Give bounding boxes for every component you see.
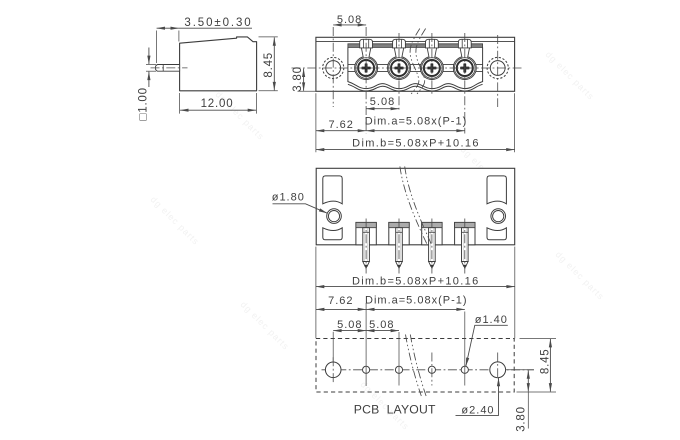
side view body [180, 37, 257, 91]
screw unit 3 tab [426, 39, 439, 48]
screw 3 cross recess [427, 63, 436, 72]
pin 2 tab [389, 222, 409, 244]
PCB pin hole 4 ø1.40 [461, 366, 468, 373]
dim line 8.45 pcb [549, 339, 551, 392]
screw 1 head [356, 58, 377, 79]
middle view outline [316, 168, 515, 245]
pin 3 tip [429, 262, 436, 267]
front view flange outline [316, 37, 515, 91]
right lower slot (middle view) [487, 228, 506, 240]
dim line 5.08 pcb left [333, 330, 366, 332]
dim 8.45 extension lines (side) [259, 36, 278, 38]
pin 2 shaft [396, 228, 403, 262]
svg-text:7.62: 7.62 [328, 295, 353, 307]
PCB pin hole 1 ø1.40 [363, 366, 370, 373]
svg-text:5.08: 5.08 [370, 96, 395, 108]
pin 4 crimp line [462, 231, 469, 233]
svg-text:5.08: 5.08 [369, 319, 394, 331]
left screw hole ø1.80 (middle view) [327, 209, 342, 224]
screw unit 1 neck [361, 48, 370, 58]
vertical centerlines front [332, 27, 334, 107]
PCB hole right ø2.40 [490, 362, 506, 378]
dim line 5.08 pcb right [366, 330, 399, 332]
pin 4 centerline [464, 219, 466, 274]
PCB horizontal centerline [322, 369, 535, 371]
pin 3 crimp line [429, 231, 436, 233]
dim line 12.00 [180, 109, 256, 111]
break line PCB 1 [406, 335, 422, 397]
screw 4 cross recess [460, 63, 469, 72]
PCB vertical centerlines [365, 303, 367, 386]
front housing top band [348, 44, 483, 48]
svg-text:3.80: 3.80 [516, 406, 528, 432]
pin 1 shaft [363, 228, 370, 262]
svg-text:Dim.a=5.08x(P-1): Dim.a=5.08x(P-1) [365, 115, 468, 127]
dim line 3.50±0.30 [157, 27, 179, 29]
svg-text:□1.00: □1.00 [138, 87, 150, 120]
svg-text:3.80: 3.80 [292, 66, 304, 92]
screw unit 3 neck [427, 48, 436, 58]
PCB pin hole 2 ø1.40 [395, 366, 402, 373]
break line front 2 [416, 29, 426, 96]
svg-text:ø1.80: ø1.80 [272, 192, 305, 204]
right upper slot (middle view) [487, 176, 506, 204]
screw unit 2 neck [394, 48, 403, 58]
svg-text:8.45: 8.45 [263, 52, 275, 78]
dim 3.50±0.30 extension lines [156, 31, 158, 64]
dim □1.00 arrows [148, 48, 150, 65]
screw unit 1 tab [360, 39, 373, 48]
side view pin centerline [151, 67, 188, 69]
PCB hole left ø2.40 [325, 362, 341, 378]
screw 4 head [455, 58, 476, 79]
break line front 1 [410, 29, 420, 96]
mounting hole right (front) [487, 57, 508, 78]
dim line 8.45 side [273, 37, 275, 90]
break line middle 1 [400, 166, 427, 244]
side view pin [156, 65, 180, 72]
screw 1 cross recess [362, 63, 371, 72]
PCB hole left vertical centerline [332, 357, 334, 382]
dim line Dim.a pcb [366, 308, 465, 310]
dim line Dim.a front [366, 130, 465, 132]
svg-text:Dim.b=5.08xP+10.16: Dim.b=5.08xP+10.16 [352, 137, 480, 149]
dim line 7.62 pcb [316, 308, 366, 310]
svg-text:PCB LAYOUT: PCB LAYOUT [354, 402, 436, 416]
pin 3 shaft [429, 228, 436, 262]
PCB layout dashed outline [316, 339, 514, 393]
pin 1 centerline [365, 219, 367, 274]
right screw hole ø1.80 (middle view) [491, 209, 506, 224]
svg-text:ø1.40: ø1.40 [475, 314, 508, 326]
svg-text:ø2.40: ø2.40 [461, 404, 494, 416]
pin 1 tab [356, 222, 376, 244]
pin hidden edge tick [162, 65, 164, 71]
dim line 3.80 front [303, 69, 305, 91]
break line middle 2 [405, 166, 432, 244]
dim 12.00 extension lines [179, 93, 181, 114]
break line PCB 2 [410, 335, 426, 397]
PCB 8.45 extensions [520, 338, 557, 340]
front wire-clamp bars [348, 63, 483, 65]
svg-text:3.50±0.30: 3.50±0.30 [184, 17, 252, 29]
front housing wavy bottom lines [348, 82, 483, 89]
dim 3.80 (front) extensions [298, 90, 317, 92]
svg-text:5.08: 5.08 [337, 319, 362, 331]
front Dim.b extension lines [315, 93, 317, 152]
svg-text:Dim.b=5.08xP+10.16: Dim.b=5.08xP+10.16 [352, 275, 480, 287]
screw unit 4 boss [453, 57, 476, 80]
pin 2 crimp line [396, 231, 403, 233]
pin 1 crimp line [363, 231, 370, 233]
dim □1.00 extension lines [146, 64, 156, 66]
dim line Dim.b middle [316, 286, 515, 288]
svg-text:5.08: 5.08 [337, 14, 362, 26]
screw unit 1 boss [355, 57, 378, 80]
pin 4 tip [462, 262, 469, 267]
svg-text:Dim.a=5.08x(P-1): Dim.a=5.08x(P-1) [365, 295, 468, 307]
dim line 5.08 top [333, 24, 366, 26]
pin 4 tab [455, 222, 475, 244]
front housing left edge [347, 47, 349, 82]
leader ø1.40 [466, 325, 508, 366]
3.80 dim tail [527, 392, 529, 429]
svg-text:7.62: 7.62 [328, 119, 353, 131]
pin 1 tip [363, 262, 370, 267]
mounting hole left (front) [323, 57, 344, 78]
screw 2 cross recess [394, 63, 403, 72]
front housing right edge [482, 47, 484, 82]
front flange edge line [316, 40, 515, 42]
pin 4 shaft [462, 228, 469, 262]
front horizontal centerline [292, 67, 522, 69]
pin 2 tip [396, 262, 403, 267]
screw unit 3 boss [420, 57, 443, 80]
screw unit 2 boss [388, 57, 411, 80]
faint watermark [149, 49, 607, 432]
PCB 5.08 left extension [332, 332, 334, 362]
pin 3 centerline [431, 219, 433, 274]
screw unit 4 tab [458, 39, 471, 48]
dim line 5.08 pitch [366, 108, 399, 110]
left upper slot (middle view) [323, 176, 342, 204]
dim line 3.80 pcb [527, 370, 529, 391]
svg-text:12.00: 12.00 [201, 98, 234, 110]
dim line Dim.b front [316, 149, 515, 151]
screw 3 head [422, 58, 443, 79]
screw unit 2 tab [393, 39, 406, 48]
left lower slot (middle view) [323, 228, 342, 240]
PCB pin hole 3 ø1.40 [428, 366, 435, 373]
PCB 3.80 extensions [506, 369, 534, 371]
svg-text:8.45: 8.45 [539, 349, 551, 375]
screw 2 head [389, 58, 410, 79]
leader ø1.80 [273, 204, 328, 213]
pin 2 centerline [398, 219, 400, 274]
leader ø2.40 [456, 378, 499, 416]
pin 3 tab [422, 222, 442, 244]
dim line 7.62 front [316, 130, 366, 132]
Dim.b middle extension lines [315, 247, 317, 339]
screw unit 4 neck [460, 48, 469, 58]
